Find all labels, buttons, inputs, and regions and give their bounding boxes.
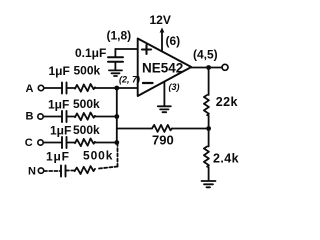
svg-text:(3): (3) <box>169 82 180 92</box>
svg-text:500k: 500k <box>73 123 100 137</box>
svg-text:(1,8): (1,8) <box>107 29 132 43</box>
svg-text:NE542: NE542 <box>142 61 183 76</box>
svg-text:N: N <box>28 166 36 178</box>
svg-text:1μF: 1μF <box>46 150 70 164</box>
svg-text:1μF: 1μF <box>49 64 70 78</box>
svg-text:500k: 500k <box>83 149 113 163</box>
svg-text:B: B <box>26 111 34 123</box>
svg-text:1μF: 1μF <box>48 98 69 112</box>
svg-text:(6): (6) <box>166 34 181 48</box>
svg-text:22k: 22k <box>216 95 238 109</box>
svg-text:A: A <box>26 83 34 95</box>
svg-text:500k: 500k <box>74 64 101 78</box>
svg-text:500k: 500k <box>73 97 100 111</box>
svg-text:12V: 12V <box>150 13 171 27</box>
svg-text:0.1μF: 0.1μF <box>75 46 106 60</box>
svg-text:1μF: 1μF <box>50 124 71 138</box>
svg-text:(2, 7): (2, 7) <box>119 75 140 85</box>
svg-text:(4,5): (4,5) <box>193 48 218 62</box>
svg-text:790: 790 <box>152 133 174 148</box>
svg-text:2.4k: 2.4k <box>213 152 239 166</box>
svg-text:C: C <box>25 137 33 149</box>
